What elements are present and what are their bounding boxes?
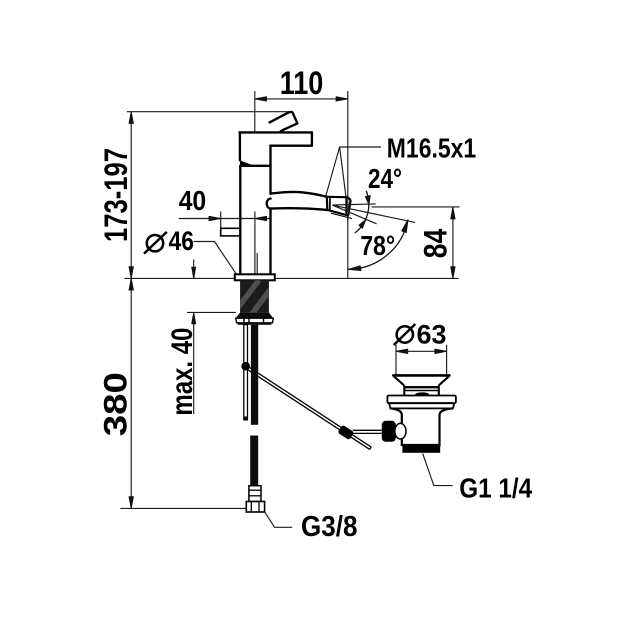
svg-text:173-197: 173-197 [98,148,134,242]
svg-text:40: 40 [179,185,207,216]
svg-text:380: 380 [98,372,134,436]
svg-text:84: 84 [418,229,454,259]
svg-text:78°: 78° [360,230,395,261]
svg-text:24°: 24° [368,163,402,194]
svg-text:G1 1/4: G1 1/4 [459,473,532,504]
svg-text:M16.5x1: M16.5x1 [387,133,476,164]
svg-text:63: 63 [417,320,447,350]
svg-text:110: 110 [280,65,324,101]
svg-text:G3/8: G3/8 [301,511,358,543]
svg-text:max. 40: max. 40 [166,328,199,416]
svg-text:46: 46 [169,226,195,256]
